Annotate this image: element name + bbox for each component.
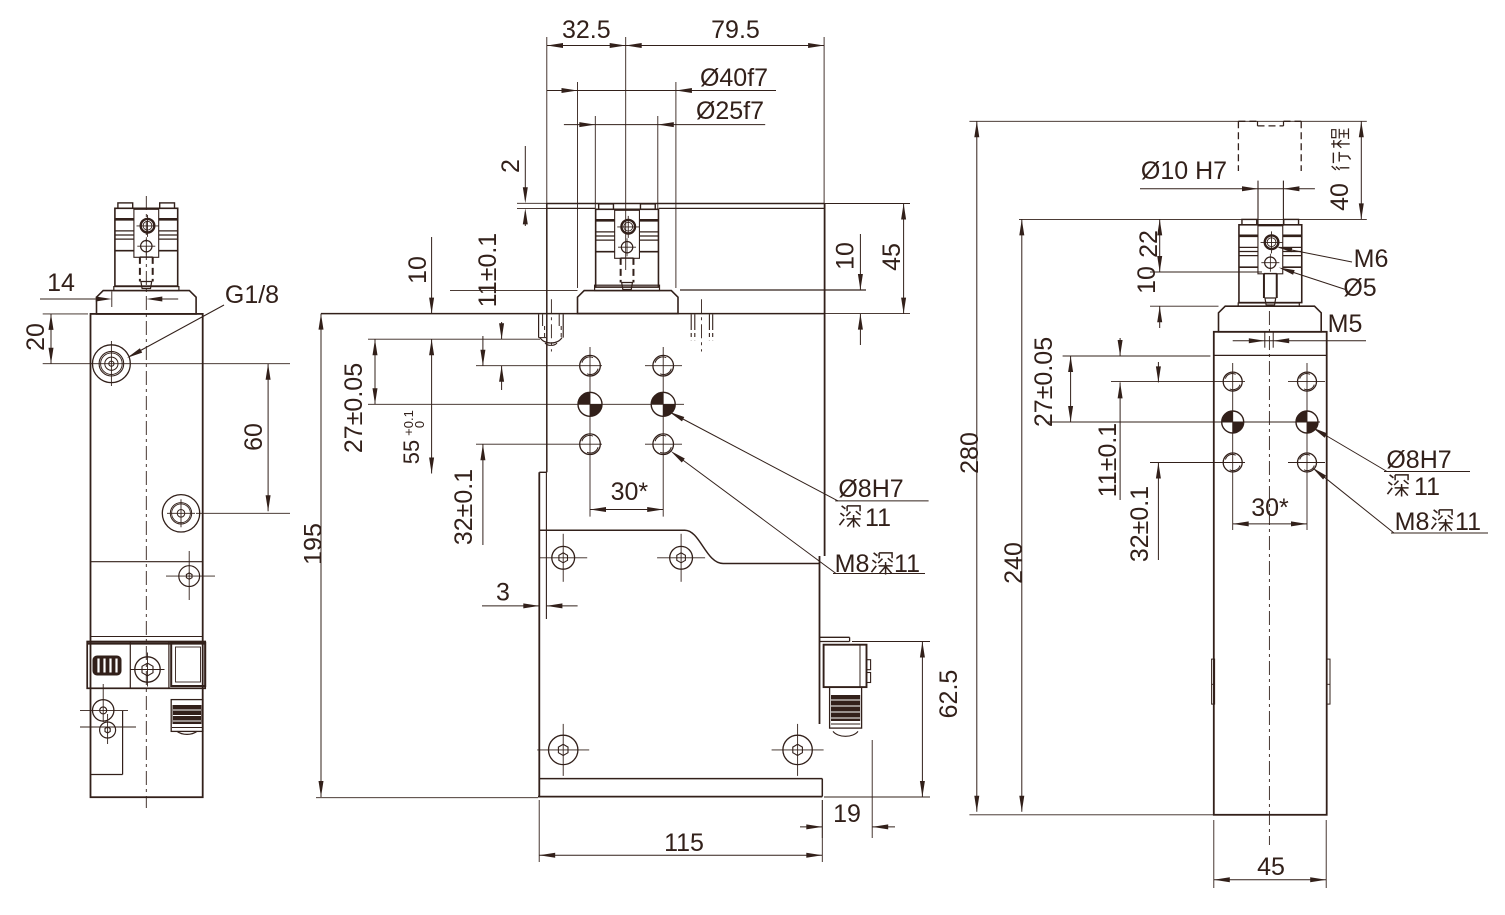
right body top feature line bbox=[1214, 354, 1327, 356]
left view sensor connector block side bbox=[171, 643, 205, 686]
reference line 11 below top bbox=[368, 338, 540, 340]
front hole column centerlines bbox=[589, 347, 591, 517]
front bottom plate strip bbox=[539, 778, 822, 780]
front lower plate hex screws bbox=[552, 546, 575, 569]
svg-text:19: 19 bbox=[833, 800, 861, 828]
front plate boss seat line bbox=[680, 289, 866, 291]
svg-text:11: 11 bbox=[1414, 473, 1440, 501]
right stroke extended position dashed outline bbox=[1238, 120, 1257, 122]
svg-text:14: 14 bbox=[47, 269, 75, 297]
gripper top tabs bbox=[599, 204, 614, 209]
gripper stud below (hidden) bbox=[620, 258, 622, 283]
gripper finger clamp bolt bbox=[621, 220, 635, 234]
gripper stud tip bbox=[141, 282, 152, 289]
gripper stud tip bbox=[622, 283, 633, 290]
label Ø8H7 深11 right bbox=[1315, 429, 1387, 472]
svg-text:32±0.1: 32±0.1 bbox=[450, 469, 478, 545]
port centerline horizontal bbox=[43, 363, 290, 365]
svg-text:11: 11 bbox=[1455, 508, 1481, 536]
svg-text:60: 60 bbox=[240, 423, 268, 451]
front hidden tapped hole right bbox=[690, 314, 692, 326]
gripper top tabs bbox=[1242, 219, 1257, 224]
left view body split line bbox=[91, 561, 203, 563]
front step at left bbox=[539, 471, 547, 473]
left view valve block bbox=[91, 636, 203, 638]
svg-text:11±0.1: 11±0.1 bbox=[1094, 423, 1122, 497]
front body right edge bbox=[824, 204, 826, 557]
left view centerline bbox=[145, 196, 147, 808]
gripper jaw unit body bbox=[596, 209, 659, 287]
svg-text:M5: M5 bbox=[1328, 310, 1363, 338]
svg-text:M8: M8 bbox=[1395, 508, 1430, 536]
gripper stud tip bbox=[1265, 298, 1276, 305]
left view lower hex screw bbox=[93, 700, 114, 721]
left view gripper base strip bbox=[114, 287, 179, 291]
svg-text:G1/8: G1/8 bbox=[225, 281, 279, 309]
right bolt hole pattern bbox=[1223, 372, 1242, 391]
gripper center block bbox=[1258, 226, 1283, 274]
gripper center block bbox=[134, 209, 159, 257]
CJK glyphs 40行程 rotated bbox=[1332, 152, 1351, 170]
gripper finger clamp bolt bbox=[141, 219, 155, 233]
svg-text:Ø40f7: Ø40f7 bbox=[700, 64, 768, 92]
gripper finger clamp bolt bbox=[1265, 235, 1279, 249]
right cap flange bbox=[1219, 306, 1322, 332]
dimension 40 stroke line bbox=[1360, 121, 1362, 219]
right main body bbox=[1214, 332, 1327, 815]
svg-text:32±0.1: 32±0.1 bbox=[1126, 486, 1154, 562]
svg-text:10: 10 bbox=[404, 256, 432, 284]
left view L-shaped cutout contour bbox=[122, 711, 124, 775]
label M8 深11 front bbox=[674, 454, 836, 574]
svg-text:M6: M6 bbox=[1354, 245, 1389, 273]
front bolt hole pattern 2x3 bbox=[580, 355, 601, 376]
front hidden set screw left bbox=[538, 314, 540, 337]
gripper jaw lines bbox=[1239, 235, 1258, 238]
right bottom extension line bbox=[969, 814, 1213, 816]
extension line 60 bottom bbox=[196, 512, 290, 514]
gripper lower pin bbox=[141, 241, 152, 252]
label M8 深11 right bbox=[1315, 470, 1394, 533]
front top plate block bbox=[547, 203, 825, 205]
svg-text:Ø8H7: Ø8H7 bbox=[1386, 446, 1451, 474]
CJK deep-11 under Ø8H7 front bbox=[839, 506, 845, 525]
label Ø8H7 深11 front bbox=[673, 414, 839, 501]
left view threaded connector barrel bbox=[171, 700, 203, 732]
left view small screw circle bbox=[179, 566, 200, 587]
svg-text:27±0.05: 27±0.05 bbox=[340, 363, 368, 453]
gripper jaw lines bbox=[596, 219, 615, 222]
svg-text:Ø5: Ø5 bbox=[1343, 274, 1376, 302]
gripper stud below (hidden) bbox=[1263, 273, 1265, 298]
svg-text:79.5: 79.5 bbox=[711, 16, 760, 44]
svg-text:30*: 30* bbox=[611, 478, 649, 506]
svg-text:20: 20 bbox=[22, 323, 50, 351]
svg-text:55: 55 bbox=[399, 440, 424, 464]
svg-text:45: 45 bbox=[878, 243, 906, 271]
front body left edge upper bbox=[546, 204, 548, 473]
svg-text:Ø8H7: Ø8H7 bbox=[838, 475, 903, 503]
front 3mm edge line bbox=[545, 472, 547, 619]
svg-text:240: 240 bbox=[1000, 542, 1028, 584]
front hole row lines bbox=[476, 365, 602, 367]
svg-text:0: 0 bbox=[412, 421, 427, 428]
left view hex adjuster screw bbox=[135, 657, 160, 682]
front dowel holes half-filled row2 bbox=[578, 392, 602, 416]
piston rod Ø10 lines bbox=[1257, 181, 1259, 226]
svg-text:115: 115 bbox=[664, 829, 704, 857]
svg-text:10: 10 bbox=[1133, 266, 1161, 294]
svg-text:195: 195 bbox=[300, 523, 328, 565]
front bottom hex screws bbox=[549, 735, 578, 764]
svg-text:11: 11 bbox=[865, 504, 891, 532]
gripper jaw unit body bbox=[115, 208, 178, 286]
svg-text:45: 45 bbox=[1257, 853, 1285, 881]
svg-text:32.5: 32.5 bbox=[562, 16, 611, 44]
svg-text:3: 3 bbox=[496, 579, 510, 607]
right sensor rail notches bbox=[1212, 659, 1215, 704]
right gripper base strip bbox=[1238, 303, 1299, 306]
left view knurled adjuster knob bbox=[93, 656, 122, 676]
left view main body bbox=[91, 314, 203, 797]
gripper center block bbox=[615, 210, 640, 258]
gripper lower pin bbox=[621, 242, 632, 253]
gripper top tabs bbox=[118, 203, 133, 208]
dimension 11 pair arrows bbox=[501, 322, 503, 339]
svg-text:62.5: 62.5 bbox=[935, 670, 963, 719]
svg-text:11: 11 bbox=[894, 550, 920, 578]
svg-text:40: 40 bbox=[1326, 183, 1354, 211]
svg-text:Ø25f7: Ø25f7 bbox=[696, 97, 764, 125]
front body top line bbox=[321, 313, 825, 315]
front slide plate top edge with ogee bbox=[539, 530, 819, 563]
front sensor bracket tab bbox=[820, 636, 850, 638]
svg-text:2: 2 bbox=[497, 159, 525, 173]
left view mid bolt circle bbox=[162, 495, 199, 532]
gripper jaw lines bbox=[115, 218, 134, 221]
svg-text:Ø10 H7: Ø10 H7 bbox=[1141, 157, 1227, 185]
front cap flange bbox=[578, 291, 679, 314]
svg-text:280: 280 bbox=[956, 432, 984, 474]
right M5 stud hidden lines bbox=[1264, 332, 1266, 348]
front sensor connector block bbox=[824, 645, 867, 687]
G1/8 air port boss circles bbox=[93, 345, 131, 383]
gripper jaw unit body bbox=[1239, 225, 1302, 303]
left view small lower screw bbox=[100, 722, 116, 738]
svg-text:30*: 30* bbox=[1251, 494, 1289, 522]
CJK glyphs 深11 right bbox=[1387, 475, 1393, 494]
gripper lower pin bbox=[1265, 257, 1276, 268]
svg-text:11±0.1: 11±0.1 bbox=[474, 233, 502, 307]
svg-text:M8: M8 bbox=[835, 550, 870, 578]
gripper stud below (hidden) bbox=[139, 257, 141, 282]
front sensor threaded barrel bbox=[830, 687, 862, 728]
svg-text:10: 10 bbox=[832, 242, 860, 270]
left view mounting cap flange bbox=[97, 291, 197, 314]
front gripper base strip bbox=[595, 285, 660, 290]
right view centerline bbox=[1268, 311, 1270, 845]
svg-text:27±0.05: 27±0.05 bbox=[1030, 337, 1058, 427]
